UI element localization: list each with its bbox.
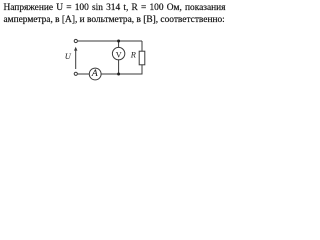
source arrow U [74,47,77,69]
terminal top [74,39,77,42]
svg-text:A: A [91,68,99,79]
svg-text:R: R [130,51,136,60]
wire bottom left [78,73,90,75]
terminal bottom [74,72,77,75]
ammeter A1 [89,68,101,80]
svg-text:U: U [65,52,72,61]
svg-text:V: V [116,50,122,59]
wire right bottom [141,65,143,75]
node junction bottom [117,73,120,76]
wire voltmeter top [118,41,120,47]
wire bottom right [101,73,142,75]
problem text [4,2,226,27]
node junction top [117,40,120,43]
resistor R body [139,51,145,65]
wire right top [141,41,143,51]
wire voltmeter bottom [118,60,120,74]
voltmeter V1 [112,47,124,59]
wire top [78,40,142,42]
